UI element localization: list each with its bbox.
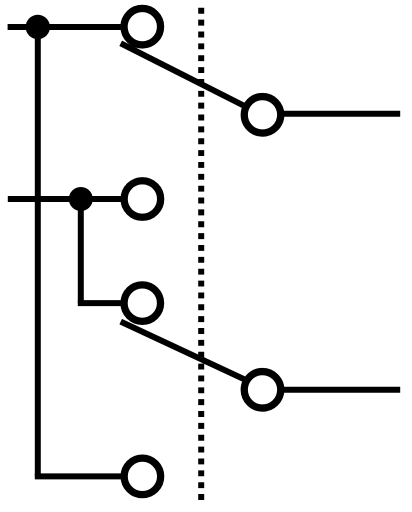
- wire: input A horizontal: [8, 24, 121, 30]
- switch lever pole 2: [121, 322, 247, 381]
- wire: left vertical bus: [35, 27, 41, 476]
- wire: input B horizontal: [8, 196, 121, 202]
- wire: pole 1 common output: [284, 111, 400, 117]
- common contact pole 2: [244, 372, 281, 409]
- junction dot B: [69, 187, 93, 211]
- wire: bottom horizontal to contact 4: [35, 473, 121, 479]
- contact 2 (pole 1 throw B): [124, 181, 161, 218]
- wire: pole 2 common output: [284, 387, 400, 393]
- contact 4 (pole 2 throw A): [124, 458, 161, 495]
- junction dot A: [26, 15, 50, 39]
- wire: branch horizontal to contact 3: [78, 300, 121, 306]
- switch lever pole 1: [121, 43, 247, 107]
- contact 3 (pole 2 throw B): [124, 285, 161, 322]
- common contact pole 1: [244, 97, 281, 134]
- mechanical link (dashed): [198, 8, 204, 500]
- wire: branch vertical from B: [78, 199, 84, 303]
- contact 1 (pole 1 throw A): [124, 8, 161, 45]
